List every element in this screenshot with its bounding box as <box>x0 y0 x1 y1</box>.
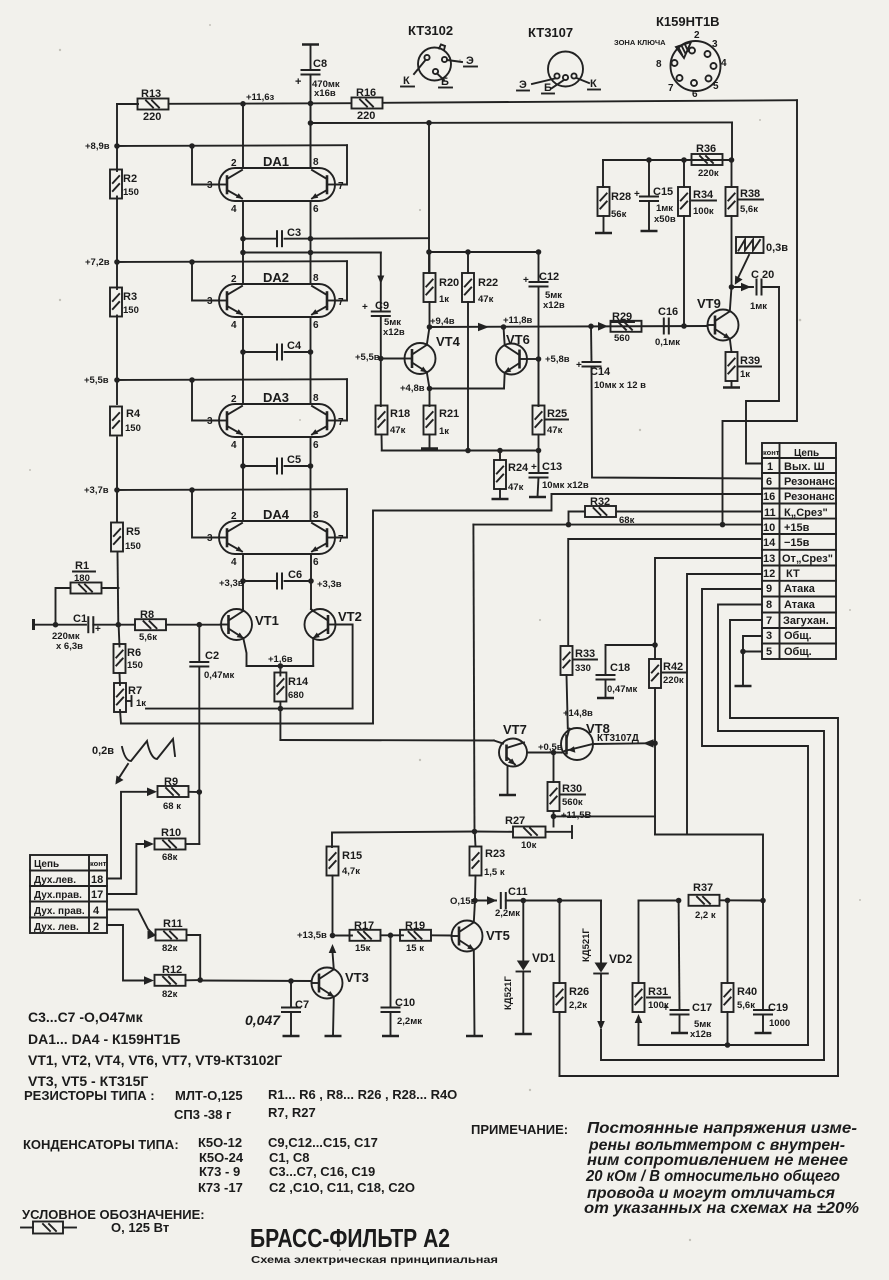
svg-text:0,47мк: 0,47мк <box>607 684 638 695</box>
svg-text:R39: R39 <box>740 355 760 367</box>
wire rail2 y123 <box>311 121 733 124</box>
svg-text:+5,8в: +5,8в <box>545 354 570 365</box>
svg-text:Цепь: Цепь <box>34 859 59 870</box>
svg-text:К: К <box>403 75 410 87</box>
transistor VT6 (mirrored) <box>496 327 570 389</box>
resistor R30 <box>548 753 592 822</box>
resistor R29 <box>598 311 642 344</box>
svg-text:+3,3в: +3,3в <box>219 578 244 589</box>
svg-text:КТ: КТ <box>786 568 800 580</box>
capacitor C5 <box>240 454 313 474</box>
svg-text:R16: R16 <box>356 87 376 99</box>
diode VD1 <box>503 901 556 1035</box>
resistor R25 <box>533 359 569 473</box>
svg-text:+: + <box>295 76 301 88</box>
wire pin18 to R9 <box>107 792 150 879</box>
wire DA1 pin4 to DA2 pin2 <box>242 201 244 284</box>
svg-text:С14: С14 <box>590 366 611 378</box>
svg-text:−15в: −15в <box>784 537 810 549</box>
wire top rail y103 <box>117 103 138 105</box>
svg-text:3: 3 <box>712 39 718 50</box>
wire bottom bus outer <box>560 1075 839 1077</box>
svg-text:DA1... DA4 - К159НТ1Б: DA1... DA4 - К159НТ1Б <box>28 1031 180 1047</box>
svg-text:+: + <box>523 275 529 286</box>
svg-text:220к: 220к <box>663 675 684 686</box>
svg-text:1мк: 1мк <box>750 301 767 312</box>
transistor VT8 (PNP) <box>561 708 639 760</box>
svg-text:3: 3 <box>207 180 213 191</box>
wire DA4 pin4 to VT1 collector <box>242 554 244 609</box>
svg-text:х12в: х12в <box>383 327 405 338</box>
capacitor C20 <box>732 269 780 312</box>
svg-text:6: 6 <box>313 320 319 331</box>
svg-text:6: 6 <box>313 557 319 568</box>
svg-text:R2: R2 <box>123 173 137 185</box>
svg-text:2,2к: 2,2к <box>569 1000 587 1011</box>
svg-text:7: 7 <box>338 297 344 308</box>
svg-text:5,6к: 5,6к <box>740 204 758 215</box>
resistor R34 <box>678 160 716 326</box>
wire VT3 base line <box>200 980 311 983</box>
svg-text:C11: C11 <box>508 886 528 898</box>
svg-text:Общ.: Общ. <box>784 646 812 658</box>
resistor R13 <box>138 88 169 123</box>
wire vertical x732 to R36 rail <box>731 122 733 160</box>
pinout diagram KT3102 <box>401 23 477 88</box>
svg-text:4,7к: 4,7к <box>342 866 360 877</box>
diode VD2 <box>581 901 633 1031</box>
svg-text:С3...С7 -О,О47мк: С3...С7 -О,О47мк <box>28 1009 144 1025</box>
svg-text:R1: R1 <box>75 560 89 572</box>
capacitor C15 <box>634 160 676 231</box>
svg-text:1к: 1к <box>439 294 449 305</box>
svg-text:2: 2 <box>231 274 237 285</box>
svg-text:150: 150 <box>123 305 139 316</box>
wire emitter rail VT1-VT2 <box>247 654 314 669</box>
svg-text:VT1, VT2, VT4, VТ6, VT7, VТ9-К: VT1, VT2, VT4, VТ6, VT7, VТ9-КТ3102Г <box>28 1052 282 1068</box>
svg-text:+: + <box>663 1003 669 1014</box>
svg-text:R23: R23 <box>485 848 505 860</box>
svg-text:13: 13 <box>763 553 775 565</box>
wire pin16 row <box>552 493 763 495</box>
svg-text:х12в: х12в <box>543 300 565 311</box>
resistor R21 <box>421 389 459 449</box>
svg-text:К: К <box>590 78 597 90</box>
svg-text:8: 8 <box>313 273 319 284</box>
svg-text:VT2: VT2 <box>338 609 362 624</box>
svg-text:150: 150 <box>125 541 141 552</box>
svg-text:R6: R6 <box>127 647 141 659</box>
transistor VT5 <box>452 901 510 1037</box>
svg-text:VT9: VT9 <box>697 296 721 311</box>
svg-text:3: 3 <box>207 416 213 427</box>
svg-text:2: 2 <box>231 511 237 522</box>
resistor R10 <box>144 827 199 863</box>
svg-text:Постоянные напряжения изме-: Постоянные напряжения изме- <box>587 1120 857 1137</box>
svg-text:К5О-24: К5О-24 <box>199 1150 244 1165</box>
svg-text:560к: 560к <box>562 797 583 808</box>
svg-text:8: 8 <box>656 59 662 70</box>
wire rail +7,2v <box>117 261 347 300</box>
svg-text:47к: 47к <box>508 482 524 493</box>
node +11,6v top rail <box>240 92 313 107</box>
svg-text:+5,5в: +5,5в <box>84 375 109 386</box>
svg-text:VT1: VT1 <box>255 613 279 628</box>
svg-text:МЛТ-О,125: МЛТ-О,125 <box>175 1088 243 1103</box>
resistor R32 <box>566 496 762 527</box>
svg-text:C7: C7 <box>295 999 309 1011</box>
svg-text:+13,5в: +13,5в <box>297 930 327 941</box>
node input/R8 junction <box>116 622 122 628</box>
svg-text:Резонанс: Резонанс <box>784 476 835 488</box>
wire DA1 pin2 column <box>242 104 244 168</box>
resistor R22 <box>462 252 498 451</box>
svg-text:8: 8 <box>766 599 772 611</box>
input terminal <box>34 619 87 630</box>
capacitor C19 <box>754 901 790 1034</box>
resistor R40 <box>722 900 758 1047</box>
svg-text:VT3, VТ5 - КТ315Г: VT3, VТ5 - КТ315Г <box>28 1073 148 1089</box>
resistor R3 <box>110 288 139 317</box>
svg-text:560: 560 <box>614 333 630 344</box>
svg-text:6: 6 <box>313 204 319 215</box>
svg-text:ПРИМЕЧАНИЕ:: ПРИМЕЧАНИЕ: <box>471 1122 568 1137</box>
svg-text:2,2 к: 2,2 к <box>695 910 716 921</box>
resistor R36 <box>692 143 723 179</box>
svg-text:+14,8в: +14,8в <box>563 708 593 719</box>
svg-text:3: 3 <box>766 630 772 642</box>
node +7,2v <box>85 257 120 268</box>
waveform symbol 0,2v sawtooth <box>92 739 175 785</box>
svg-text:82к: 82к <box>162 989 178 1000</box>
resistor R16 <box>352 87 383 122</box>
svg-text:0,047: 0,047 <box>245 1012 281 1028</box>
capacitor C8 <box>295 45 340 169</box>
svg-text:C10: C10 <box>395 997 415 1009</box>
svg-text:C2: C2 <box>205 650 219 662</box>
svg-text:68 к: 68 к <box>163 801 181 812</box>
svg-text:R19: R19 <box>405 920 425 932</box>
resistor R37 <box>689 882 766 921</box>
svg-text:18: 18 <box>91 874 103 886</box>
wire bottom bus inner <box>639 1044 809 1046</box>
svg-text:330: 330 <box>575 663 591 674</box>
resistor R27 (trimmer SP3-38) <box>475 815 573 851</box>
node +8,9v <box>85 141 120 152</box>
svg-text:VT4: VT4 <box>436 334 461 349</box>
svg-text:Дух.лев.: Дух.лев. <box>34 875 76 886</box>
svg-text:+9,4в: +9,4в <box>430 316 455 327</box>
wire pin13 row to R42 column <box>655 558 762 659</box>
svg-text:+11,6з: +11,6з <box>246 92 275 103</box>
svg-text:R27: R27 <box>505 815 525 827</box>
svg-text:C3: C3 <box>287 227 301 239</box>
wire bottom bus middle <box>601 1030 824 1060</box>
note text <box>471 1120 859 1217</box>
wire rail +8,9v <box>117 145 347 184</box>
wire pin12 KT row <box>687 574 762 835</box>
svg-text:КТ3107: КТ3107 <box>528 25 573 40</box>
svg-text:14: 14 <box>763 537 776 549</box>
svg-text:150: 150 <box>125 423 141 434</box>
svg-text:0,1мк: 0,1мк <box>655 337 680 348</box>
wire C11 node to R31 top <box>639 900 679 902</box>
svg-text:1к: 1к <box>439 426 449 437</box>
svg-text:+4,8в: +4,8в <box>400 383 425 394</box>
svg-text:3: 3 <box>207 296 213 307</box>
svg-text:47к: 47к <box>478 294 494 305</box>
svg-text:4: 4 <box>231 557 237 568</box>
svg-text:РЕЗИСТОРЫ ТИПА :: РЕЗИСТОРЫ ТИПА : <box>24 1088 155 1103</box>
svg-text:DA2: DA2 <box>263 270 289 285</box>
svg-text:47к: 47к <box>390 425 406 436</box>
resistor R17 <box>333 920 404 954</box>
resistor R24 <box>492 451 530 500</box>
svg-text:1: 1 <box>767 461 773 473</box>
resistor R6 <box>114 625 143 673</box>
svg-text:VT3: VT3 <box>345 970 369 985</box>
svg-text:47к: 47к <box>547 425 563 436</box>
svg-text:VT6: VT6 <box>506 332 530 347</box>
node +3,7v <box>84 485 120 496</box>
svg-text:8: 8 <box>313 510 319 521</box>
svg-text:2,2мк: 2,2мк <box>397 1016 422 1027</box>
svg-text:R17: R17 <box>354 920 374 932</box>
capacitor types text <box>23 1135 415 1195</box>
svg-text:5: 5 <box>713 81 719 92</box>
connector table right <box>762 443 836 659</box>
svg-text:конт: конт <box>763 448 780 457</box>
capacitor C12 <box>523 252 565 406</box>
resistor R12 <box>144 964 203 1000</box>
svg-text:1,5 к: 1,5 к <box>484 867 505 878</box>
wire R36 bias rail y160 <box>603 157 734 163</box>
wire ground rail y450 <box>382 448 542 454</box>
wire DA1 pin6 to DA2 pin8 <box>310 201 312 284</box>
svg-text:R40: R40 <box>737 986 757 998</box>
wire VT8 emitter to R42 column <box>593 739 658 747</box>
svg-text:R10: R10 <box>161 827 181 839</box>
svg-text:К5О-12: К5О-12 <box>198 1135 242 1150</box>
wire vertical x429 R20 column top <box>428 123 430 272</box>
svg-text:R42: R42 <box>663 661 683 673</box>
svg-text:4: 4 <box>721 58 727 69</box>
svg-text:0,3в: 0,3в <box>766 242 788 254</box>
svg-text:От„Срез": От„Срез" <box>782 553 833 565</box>
resistor R39 <box>723 352 761 388</box>
svg-text:150: 150 <box>127 660 143 671</box>
svg-text:+: + <box>531 462 537 473</box>
svg-text:C13: C13 <box>542 461 562 473</box>
svg-text:VD1: VD1 <box>532 951 556 965</box>
svg-text:6: 6 <box>766 476 772 488</box>
transistor VT1 <box>221 609 279 666</box>
resistor R20 <box>424 252 460 327</box>
resistor R38 <box>726 160 764 290</box>
svg-text:10мк х12в: 10мк х12в <box>542 480 589 491</box>
op-amp DA1 (dual transistor IC) <box>207 154 344 215</box>
svg-text:от указанных на схемах на: от указанных на схемах на ±20% <box>584 1200 859 1217</box>
svg-text:6: 6 <box>692 89 698 100</box>
svg-text:15 к: 15 к <box>406 943 424 954</box>
svg-text:R14: R14 <box>288 676 309 688</box>
wire pin4 to R11 <box>107 910 152 934</box>
pinout diagram K159NT1V <box>614 14 727 100</box>
svg-text:7: 7 <box>766 615 772 627</box>
capacitor C10 <box>382 935 423 1036</box>
svg-text:R11: R11 <box>163 918 183 930</box>
resistor types text <box>24 1087 457 1122</box>
svg-text:R26: R26 <box>569 986 589 998</box>
svg-text:R20: R20 <box>439 277 459 289</box>
svg-text:0,47мк: 0,47мк <box>204 670 235 681</box>
svg-text:R22: R22 <box>478 277 498 289</box>
svg-text:Б: Б <box>441 76 449 88</box>
resistor R42 <box>649 659 686 835</box>
svg-text:R31: R31 <box>648 986 668 998</box>
wire pin9 row <box>702 589 808 1045</box>
capacitor C17 <box>663 901 712 1041</box>
wire pin14 -15v rail <box>568 539 762 645</box>
svg-text:100к: 100к <box>693 206 714 217</box>
svg-text:DA1: DA1 <box>263 154 289 169</box>
svg-text:C19: C19 <box>768 1002 788 1014</box>
svg-text:C5: C5 <box>287 454 301 466</box>
wire node row y252 to C9 <box>240 250 384 312</box>
resistor R1 <box>53 560 119 628</box>
svg-text:R37: R37 <box>693 882 713 894</box>
wire rail +3,7v <box>117 489 347 537</box>
wire resonance line up x373 <box>373 494 552 724</box>
svg-text:Схема электрическая принципиал: Схема электрическая принципиальная <box>251 1255 498 1266</box>
pinout diagram KT3107 <box>517 25 600 94</box>
node +0,5v <box>538 742 563 755</box>
capacitor C6 <box>219 569 342 590</box>
wire pin10 +15v rail <box>473 522 762 528</box>
svg-text:+: + <box>576 360 582 371</box>
svg-text:680: 680 <box>288 690 304 701</box>
svg-text:7: 7 <box>668 83 674 94</box>
svg-text:Резонанс: Резонанс <box>784 491 835 503</box>
resistor R9 <box>147 776 202 812</box>
resistor R18 <box>376 406 411 451</box>
svg-text:150: 150 <box>123 187 139 198</box>
svg-text:9: 9 <box>766 583 772 595</box>
svg-text:R36: R36 <box>696 143 716 155</box>
svg-text:1к: 1к <box>740 369 750 380</box>
svg-text:16: 16 <box>763 491 775 503</box>
svg-text:О,15в: О,15в <box>450 896 477 907</box>
wire emitter row y388 <box>400 383 504 394</box>
left connector table <box>30 855 107 933</box>
wire +15v lower rail y832 <box>332 829 477 847</box>
svg-text:17: 17 <box>91 889 103 901</box>
transistor VT4 <box>405 327 461 389</box>
node +5,5v <box>84 375 120 386</box>
capacitor C11 <box>475 886 601 919</box>
svg-text:DA3: DA3 <box>263 390 289 405</box>
resistor R2 <box>110 170 139 199</box>
svg-text:R4: R4 <box>126 408 141 420</box>
svg-text:2: 2 <box>231 394 237 405</box>
transistor VT9 <box>697 287 739 352</box>
resistor R26 <box>554 901 590 1077</box>
wire DA3 pin4 to DA4 <box>242 437 244 521</box>
svg-text:DA4: DA4 <box>263 507 290 522</box>
resistor R15 <box>327 847 363 936</box>
svg-text:С12: С12 <box>539 271 559 283</box>
svg-text:220: 220 <box>357 110 375 122</box>
bottom parts list text <box>28 1009 282 1089</box>
svg-text:VT7: VT7 <box>503 722 527 737</box>
svg-text:R5: R5 <box>126 526 140 538</box>
wire rail +5,5v <box>117 379 347 420</box>
svg-text:56к: 56к <box>611 209 627 220</box>
svg-text:C1: C1 <box>73 613 87 625</box>
capacitor C16 <box>655 306 680 348</box>
svg-text:R7: R7 <box>128 685 142 697</box>
svg-text:15к: 15к <box>355 943 371 954</box>
svg-text:Дух. прав.: Дух. прав. <box>34 906 85 917</box>
svg-text:Б: Б <box>544 82 552 94</box>
svg-text:20 кОм / В относительно обще: 20 кОм / В относительно общего <box>585 1168 840 1185</box>
svg-text:х16в: х16в <box>314 88 336 99</box>
svg-text:ЗОНА КЛЮЧА: ЗОНА КЛЮЧА <box>614 38 666 47</box>
svg-text:R34: R34 <box>693 189 714 201</box>
svg-text:+11,8в: +11,8в <box>503 315 533 326</box>
resistor R7 (trimmer SP3-38) <box>114 673 146 712</box>
svg-text:х50в: х50в <box>654 214 676 225</box>
svg-text:180: 180 <box>74 573 90 584</box>
svg-text:Атака: Атака <box>784 583 816 595</box>
svg-text:х 6,3в: х 6,3в <box>56 641 83 652</box>
wire VT2 base to x352 <box>336 625 353 709</box>
svg-text:C17: C17 <box>692 1002 712 1014</box>
svg-text:R38: R38 <box>740 188 760 200</box>
capacitor C4 <box>240 340 313 360</box>
svg-text:+0,5в: +0,5в <box>538 742 563 753</box>
svg-text:R3: R3 <box>123 291 137 303</box>
svg-text:С9,С12...С15, С17: С9,С12...С15, С17 <box>268 1135 378 1150</box>
svg-text:68к: 68к <box>162 852 178 863</box>
svg-text:Дух. лев.: Дух. лев. <box>34 922 79 933</box>
svg-text:К73 -17: К73 -17 <box>198 1180 243 1195</box>
op-amp DA2 <box>207 270 344 331</box>
svg-text:7: 7 <box>338 417 344 428</box>
node +5,5v VT4 base <box>355 352 405 363</box>
svg-text:R8: R8 <box>140 609 154 621</box>
svg-text:+: + <box>362 302 368 313</box>
svg-text:С9: С9 <box>375 300 389 312</box>
svg-text:1к: 1к <box>136 698 146 709</box>
svg-text:7: 7 <box>338 534 344 545</box>
svg-text:1000: 1000 <box>769 1018 790 1029</box>
svg-text:10: 10 <box>763 522 775 534</box>
svg-text:12: 12 <box>763 568 775 580</box>
svg-text:4: 4 <box>93 905 100 917</box>
svg-text:2: 2 <box>231 158 237 169</box>
svg-text:R25: R25 <box>547 408 567 420</box>
wire DA4 pin6 to VT2 collector <box>310 554 312 609</box>
transistor VT2 (mirrored) <box>305 609 362 666</box>
wire pin17 to R10 <box>107 844 147 894</box>
wire R7 bottom to resonance line <box>120 710 373 724</box>
svg-text:R1... R6 , R8... R26 , R28...: R1... R6 , R8... R26 , R28... R4О <box>268 1087 457 1102</box>
transistor VT7 <box>494 722 562 795</box>
capacitor C3 <box>240 227 429 246</box>
svg-text:7: 7 <box>338 181 344 192</box>
node +13,5v <box>297 930 336 953</box>
